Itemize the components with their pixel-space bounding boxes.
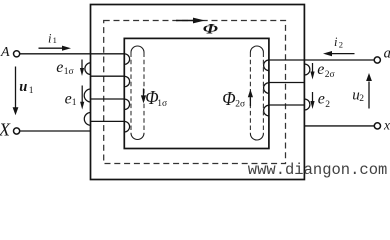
svg-text:a: a: [384, 46, 390, 62]
winding W2 rungs (secondary crossing core limb): [269, 83, 305, 106]
wire a terminal to winding 2: [269, 59, 374, 61]
svg-text:1: 1: [29, 86, 34, 96]
flux arrow (top, main flux direction): [176, 18, 205, 24]
svg-text:A: A: [0, 45, 10, 60]
core outer outline: [91, 5, 305, 180]
leakage flux loop 2 (dashed stadium, right): [250, 46, 263, 140]
leakage flux 2 arrow (up): [248, 89, 253, 106]
svg-text:e: e: [56, 59, 63, 76]
node x terminal circle: [374, 123, 380, 129]
core inner window outline: [124, 38, 269, 148]
emf e2sigma arrow (down): [310, 63, 314, 80]
svg-text:2: 2: [359, 94, 364, 104]
emf e1 arrow (down): [80, 86, 84, 110]
winding W2 window-side humps: [264, 60, 269, 116]
emf e1sigma arrow (down): [80, 60, 84, 77]
current i2 arrow: [323, 51, 355, 56]
leakage flux loop 1 (dashed stadium, left): [131, 46, 144, 140]
svg-text:X: X: [0, 120, 11, 140]
svg-text:2: 2: [325, 100, 330, 110]
wire A terminal to winding 1: [20, 53, 125, 55]
svg-text:Φ: Φ: [203, 20, 219, 37]
wire x terminal to core: [304, 125, 374, 127]
node A terminal circle: [14, 51, 20, 57]
emf e2 arrow (down): [310, 92, 314, 109]
svg-text:1σ: 1σ: [157, 99, 167, 109]
svg-text:i: i: [48, 31, 52, 45]
node a terminal circle: [374, 57, 380, 63]
leakage flux 1 arrow (down): [141, 89, 146, 104]
svg-text:e: e: [318, 91, 325, 108]
voltage u1 arrow (down): [13, 67, 19, 116]
svg-text:2σ: 2σ: [235, 100, 245, 110]
svg-text:e: e: [317, 61, 324, 78]
svg-text:e: e: [65, 90, 72, 107]
voltage u2 arrow (up): [366, 73, 372, 109]
svg-text:2σ: 2σ: [325, 70, 335, 80]
svg-text:x: x: [383, 118, 390, 133]
flux path dashed rect (main flux): [104, 21, 286, 164]
svg-text:1: 1: [72, 98, 77, 108]
winding W1 rungs (primary crossing core limb): [91, 76, 125, 121]
svg-text:i: i: [334, 35, 338, 49]
svg-text:Φ: Φ: [222, 88, 235, 110]
svg-text:1σ: 1σ: [64, 67, 74, 77]
winding W1 outer-side humps: [84, 63, 91, 126]
current i1 arrow: [39, 46, 72, 51]
wire X terminal to core: [20, 130, 91, 132]
svg-text:u: u: [19, 79, 27, 95]
svg-text:2: 2: [339, 40, 343, 50]
node X terminal circle: [14, 128, 20, 134]
svg-text:1: 1: [53, 35, 57, 45]
winding W1 window-side humps: [124, 54, 129, 132]
winding W2 outer-side humps: [304, 64, 310, 110]
svg-text:www.diangon.com: www.diangon.com: [248, 161, 388, 179]
